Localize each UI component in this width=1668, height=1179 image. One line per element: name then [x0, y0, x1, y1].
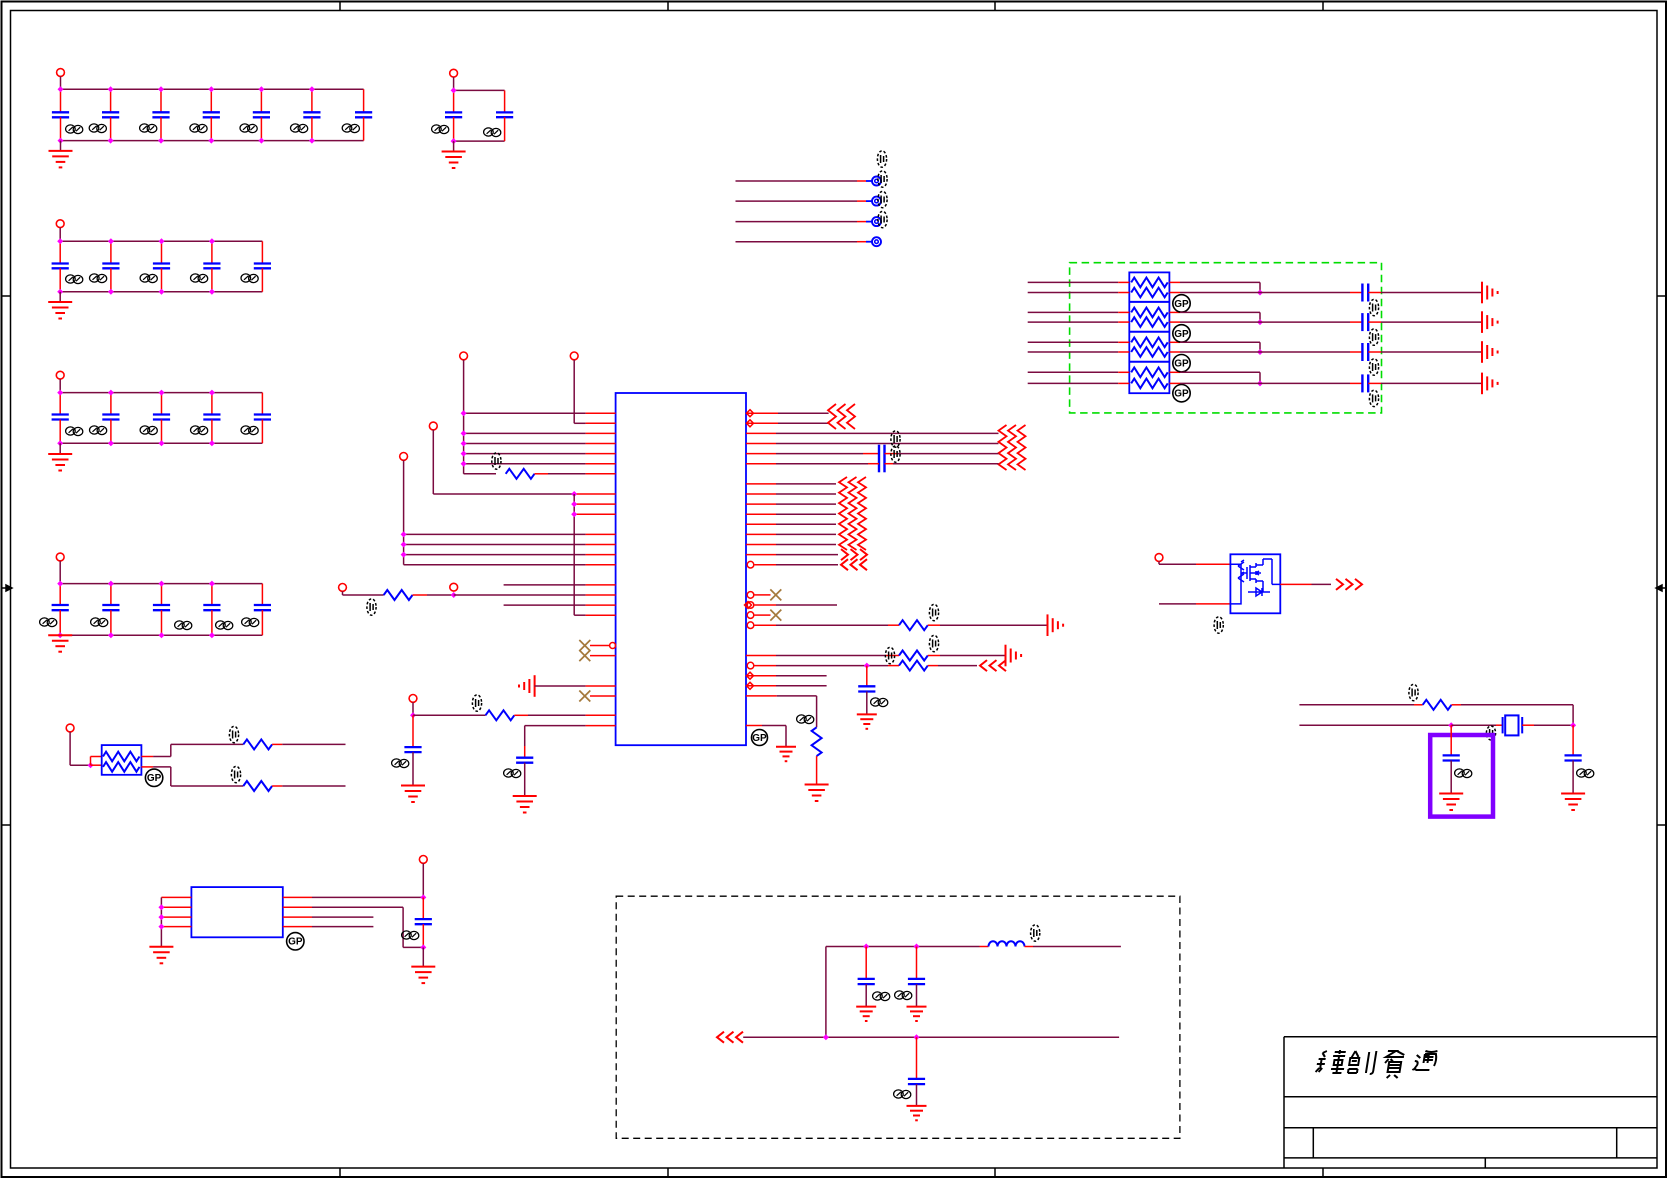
wire: [916, 984, 918, 1007]
junction: [57, 581, 63, 587]
power pin P9: [1155, 554, 1163, 562]
wire pin row: [161, 906, 191, 908]
ref label: [492, 453, 501, 469]
wire: [413, 714, 486, 716]
junction: [309, 138, 315, 144]
junction: [108, 581, 114, 587]
wire TP2: [736, 200, 858, 202]
resistor R7: [812, 727, 822, 756]
termination ground: [1048, 614, 1064, 636]
junction: [108, 138, 114, 144]
wire: [160, 897, 162, 946]
resistor RP1-7: [1131, 368, 1168, 378]
capacitor B3C3: [153, 241, 170, 291]
no-connect X: [770, 610, 781, 621]
junction: [158, 914, 164, 920]
purple highlight box: [1430, 735, 1493, 817]
wire: [1169, 371, 1180, 373]
capacitor B3C5: [254, 241, 271, 291]
capacitor B1C4: [203, 89, 220, 140]
company name glyphs: [1315, 1050, 1347, 1073]
resistor R9: [243, 781, 272, 791]
GP label: [1173, 355, 1190, 372]
wire in8: [1028, 382, 1119, 384]
capacitor B3C4: [203, 241, 220, 291]
resistor RP1-5: [1131, 338, 1168, 348]
wire bottom bus: [454, 140, 505, 142]
wire: [885, 453, 899, 455]
wire: [422, 863, 424, 897]
resistor R6: [899, 661, 928, 671]
capacitor B1C2: [102, 89, 119, 140]
junction: [420, 894, 426, 900]
capacitor B1C1: [52, 89, 69, 140]
off-sheet chevrons: [841, 549, 867, 560]
wire: [866, 666, 868, 687]
capacitor C72: [908, 1079, 925, 1084]
wire pin row: [454, 594, 586, 596]
wire: [928, 655, 940, 657]
svg-text:GP: GP: [1174, 389, 1189, 400]
wire pin row: [283, 906, 312, 908]
wire pin row: [755, 665, 777, 667]
junction: [108, 238, 114, 244]
ref label: [91, 618, 108, 627]
ground: [1439, 794, 1463, 811]
pin circle: [747, 592, 754, 599]
junction: [159, 632, 165, 638]
test point TP3: [872, 217, 881, 226]
wire pin row: [755, 624, 777, 626]
wire: [590, 655, 616, 657]
junction: [209, 440, 215, 446]
junction: [309, 86, 315, 92]
wire: [1299, 704, 1414, 706]
no-connect X: [770, 589, 781, 600]
transistor Q1 body: [1230, 554, 1280, 613]
capacitor C60: [415, 919, 432, 924]
svg-text:GP: GP: [147, 773, 162, 784]
ref label: [1486, 726, 1495, 740]
junction: [1448, 722, 1454, 728]
wire: [412, 715, 414, 747]
ref label: [878, 191, 887, 207]
wire pin row: [283, 916, 312, 918]
capacitor B5C3: [153, 584, 170, 636]
resistor R10: [1423, 700, 1452, 710]
wire: [60, 141, 62, 151]
ref label: [240, 124, 257, 133]
wire: [1169, 281, 1180, 283]
capacitor B5C4: [203, 584, 220, 636]
inductor L1: [989, 941, 1025, 946]
capacitor CT2: [1362, 313, 1368, 331]
capacitor B1C6: [303, 89, 320, 140]
ref label: [140, 124, 157, 133]
wire pin row: [746, 443, 776, 445]
resistor pack RP1 body: [1129, 272, 1169, 393]
capacitor CT3: [1362, 343, 1368, 361]
wire in3: [1028, 311, 1119, 313]
capacitor C40: [879, 445, 885, 473]
wire: [422, 924, 424, 947]
GP label: [145, 769, 162, 786]
wire: [1159, 603, 1196, 605]
ref label: [1369, 299, 1378, 315]
junction: [401, 542, 407, 548]
termination ground: [1482, 373, 1498, 395]
power pin P7: [409, 695, 417, 703]
ref label: [367, 599, 376, 615]
wire pin row: [574, 503, 615, 505]
wire: [59, 561, 61, 584]
wire pin row: [746, 523, 776, 525]
resistor R2: [384, 590, 413, 600]
junction: [159, 289, 165, 295]
power pin P2: [570, 352, 578, 360]
ref label: [175, 621, 192, 630]
pin diamond: [747, 420, 754, 427]
termination ground: [519, 675, 535, 697]
junction: [401, 552, 407, 558]
wire top bus: [61, 88, 364, 90]
wire: [1180, 382, 1350, 384]
wire: [1450, 725, 1452, 755]
junction: [461, 451, 467, 457]
ground B4: [48, 454, 72, 471]
wire: [1280, 583, 1311, 585]
ref label: [1369, 390, 1378, 406]
ref label: [40, 618, 57, 627]
power pin B2: [450, 69, 458, 77]
IC U2 body: [191, 887, 282, 937]
ground: [857, 714, 877, 728]
wire pin row: [746, 725, 762, 727]
wire: [826, 946, 980, 948]
wire: [1368, 351, 1381, 353]
ref label: [1369, 359, 1378, 375]
wire pin row: [283, 896, 312, 898]
termination ground: [1482, 341, 1498, 363]
pin bubble: [610, 643, 616, 649]
wire TP3: [736, 221, 858, 223]
wire pin row: [746, 655, 776, 657]
ground B1: [49, 151, 73, 168]
ref label: [216, 621, 233, 630]
wire: [928, 624, 940, 626]
junction: [451, 138, 457, 144]
ref label: [66, 275, 83, 284]
ref label: [894, 1090, 911, 1099]
zone tick top 2: [667, 2, 669, 11]
ref label: [89, 124, 106, 133]
capacitor C51: [1565, 755, 1582, 760]
ground: [513, 796, 537, 813]
svg-text:GP: GP: [1174, 329, 1189, 340]
zone tick top 4: [1322, 2, 1324, 11]
wire: [573, 494, 575, 615]
ref label: [929, 635, 938, 651]
wire: [1169, 341, 1180, 343]
junction: [108, 632, 114, 638]
wire: [412, 702, 414, 715]
junction: [209, 289, 215, 295]
ground: [411, 967, 435, 984]
capacitor B1C5: [253, 89, 270, 140]
termination ground: [1006, 645, 1022, 667]
junction: [401, 531, 407, 537]
wire bottom bus: [60, 634, 262, 636]
wire: [91, 764, 102, 766]
wire pin row: [746, 503, 776, 505]
wire top bus: [454, 89, 505, 91]
zone tick bottom 3: [994, 1168, 996, 1177]
pin circle: [747, 561, 754, 568]
resistor R8: [243, 739, 272, 749]
wire pin row: [404, 533, 586, 535]
zone tick bottom 1: [339, 1168, 341, 1177]
power pin P10: [419, 856, 427, 864]
wire: [980, 946, 989, 948]
wire: [432, 430, 434, 494]
no-connect squiggles: [839, 477, 847, 550]
ref label: [66, 125, 83, 134]
zone tick top 1: [339, 2, 341, 11]
ref label: [90, 274, 107, 283]
ref label: [1369, 329, 1378, 345]
wire pin row: [755, 604, 777, 606]
wire pin row: [755, 564, 777, 566]
wire: [524, 763, 526, 796]
wire pin row: [464, 432, 586, 434]
capacitor B4C1: [52, 393, 69, 444]
wire: [514, 714, 528, 716]
junction: [208, 138, 214, 144]
wire pin row: [161, 926, 191, 928]
zone tick left 2: [2, 824, 11, 826]
off-sheet chevrons: [980, 660, 1006, 671]
zone tick left 1: [2, 295, 11, 297]
svg-text:GP: GP: [1174, 299, 1189, 310]
power pin P4: [400, 453, 408, 461]
wire: [1169, 311, 1180, 313]
capacitor B5C5: [254, 584, 271, 636]
wire: [413, 594, 428, 596]
zone tick right 2: [1657, 824, 1666, 826]
resistor R5: [899, 651, 928, 661]
junction: [209, 238, 215, 244]
ref label: [66, 427, 83, 436]
wire: [916, 947, 918, 979]
wire: [1180, 341, 1260, 343]
ref label: [242, 618, 259, 627]
off-sheet chevrons: [717, 1032, 743, 1043]
title block frame: [1284, 1037, 1657, 1168]
junction: [451, 87, 457, 93]
junction: [57, 440, 63, 446]
wire: [342, 591, 344, 595]
termination ground: [1482, 311, 1498, 333]
wire: [755, 594, 771, 596]
power pin B3: [56, 220, 64, 228]
wire: [463, 360, 465, 474]
junction: [914, 944, 920, 950]
center arrow right: [1656, 585, 1666, 591]
ref label: [191, 426, 208, 435]
junction: [57, 289, 63, 295]
power pin B4: [56, 371, 64, 379]
wire pin row: [464, 463, 586, 465]
wire: [141, 766, 153, 768]
resistor R3: [486, 710, 515, 720]
capacitor CT1: [1362, 284, 1368, 302]
wire pin row: [746, 675, 776, 677]
ref label: [1214, 617, 1223, 633]
wire pin row: [746, 695, 777, 697]
junction: [420, 944, 426, 950]
wire: [1180, 321, 1350, 323]
wire top bus: [60, 392, 262, 394]
junction: [58, 86, 64, 92]
wire: [1452, 704, 1462, 706]
wire: [865, 947, 867, 979]
wire: [453, 77, 455, 90]
ref label: [190, 124, 207, 133]
GP label: [1173, 295, 1190, 312]
junction: [1257, 319, 1263, 325]
capacitor B1C7: [355, 89, 372, 140]
wire: [865, 984, 867, 1007]
wire in7: [1028, 371, 1119, 373]
wire top bus: [60, 583, 262, 585]
ref label: [1031, 925, 1040, 941]
wire: [866, 692, 868, 715]
ref label: [895, 991, 912, 1000]
ground: [907, 1007, 927, 1021]
resistor RP1-8: [1131, 379, 1168, 389]
capacitor B4C5: [254, 393, 271, 444]
junction: [864, 663, 870, 669]
wire TP4: [736, 241, 858, 243]
junction: [258, 138, 264, 144]
wire in4: [1028, 321, 1119, 323]
capacitor C70: [858, 979, 875, 984]
wire: [1451, 724, 1496, 726]
GP label: [1173, 325, 1190, 342]
junction: [1570, 722, 1576, 728]
wire pin row: [404, 544, 586, 546]
wire pin row: [746, 422, 778, 424]
resistor R4: [899, 620, 928, 630]
junction: [58, 138, 64, 144]
wire in2: [1028, 292, 1119, 294]
ref label: [797, 715, 814, 724]
wire pin row: [464, 453, 586, 455]
wire: [1450, 761, 1452, 794]
junction: [158, 138, 164, 144]
pin diamond: [747, 672, 754, 679]
wire: [60, 76, 62, 89]
ground: [805, 785, 829, 802]
junction: [158, 924, 164, 930]
wire: [524, 726, 526, 746]
wire pin row: [574, 422, 585, 424]
wire bottom bus: [61, 140, 364, 142]
pin diamond: [747, 682, 754, 689]
wire pin row: [525, 725, 586, 727]
capacitor CT4: [1362, 374, 1368, 392]
junction: [57, 390, 63, 396]
ref label: [878, 211, 887, 227]
wire: [916, 1037, 918, 1079]
no-connect squiggles: [828, 404, 836, 429]
ref label: [504, 769, 521, 778]
wire: [1158, 561, 1160, 564]
ref label: [241, 274, 258, 283]
ground B2: [442, 152, 466, 169]
wire: [590, 695, 616, 697]
junction: [1257, 380, 1263, 386]
wire: [1572, 761, 1574, 794]
wire: [1025, 946, 1034, 948]
ref label: [885, 647, 894, 663]
resistor RP1-6: [1131, 347, 1168, 357]
junction: [159, 581, 165, 587]
green dashed group box: [1070, 263, 1382, 413]
zone tick bottom 4: [1322, 1168, 1324, 1177]
wire: [90, 757, 92, 766]
wire bottom bus: [60, 442, 262, 444]
wire: [816, 756, 818, 784]
junction: [208, 86, 214, 92]
test point TP2: [872, 197, 881, 206]
pin circle: [747, 602, 754, 609]
ref label: [877, 151, 886, 167]
wire: [1299, 724, 1451, 726]
wire: [69, 732, 71, 765]
capacitor B2C1: [445, 90, 462, 141]
wire: [888, 665, 899, 667]
wire pin row: [574, 614, 585, 616]
wire pin row: [504, 584, 586, 586]
junction: [1257, 290, 1263, 296]
wire: [1368, 321, 1381, 323]
crystal Y1: [1503, 715, 1523, 735]
ground: [149, 947, 173, 964]
capacitor C50: [1443, 755, 1460, 760]
ref label: [229, 726, 238, 742]
ground: [856, 1007, 876, 1021]
wire pin row: [404, 554, 586, 556]
ground: [401, 786, 425, 803]
capacitor B3C2: [102, 241, 119, 291]
wire pin row: [746, 685, 776, 687]
junction: [57, 238, 63, 244]
no-connect X: [579, 640, 590, 651]
zone tick top 3: [994, 2, 996, 11]
wire TP1: [736, 180, 858, 182]
wire pin row: [746, 432, 776, 434]
black dashed group box: [616, 896, 1180, 1138]
ref label: [472, 695, 481, 711]
wire: [743, 1036, 1119, 1038]
ref label: [871, 698, 888, 707]
wire: [1169, 382, 1180, 384]
power pin B1: [57, 69, 65, 77]
junction: [108, 86, 114, 92]
junction: [823, 1034, 829, 1040]
off-sheet chevrons: [1336, 579, 1362, 590]
